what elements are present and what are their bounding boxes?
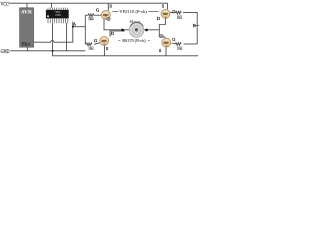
svg-text:B: B	[193, 23, 196, 28]
wire right leg to Q2 drain	[159, 18, 165, 29]
IC top pins	[48, 8, 68, 10]
wire gate splitter vertical	[84, 15, 86, 44]
svg-text:VP2110 (P-ch): VP2110 (P-ch)	[119, 9, 147, 14]
IC body	[46, 10, 69, 19]
wire VCC drop to AVR	[26, 3, 28, 8]
node A junction dot	[72, 26, 74, 28]
IC pin1 dot	[47, 15, 49, 17]
svg-text:A: A	[73, 21, 77, 26]
svg-text:G: G	[172, 37, 176, 42]
wire node A branch to gate splitter	[73, 26, 86, 28]
svg-text:240N: 240N	[55, 14, 61, 17]
svg-text:1kΩ: 1kΩ	[88, 17, 94, 21]
svg-text:G: G	[96, 8, 100, 13]
transistor Q3 BS170 bottom-left	[100, 36, 109, 45]
IC U1 DIP package	[46, 8, 69, 24]
node junction dot load left	[121, 29, 123, 31]
svg-text:BS170 (N-ch): BS170 (N-ch)	[122, 38, 146, 43]
wire top-left gate feed	[85, 14, 88, 16]
wire load left lead	[125, 29, 130, 31]
resistor R4 1k bottom-right	[175, 43, 181, 46]
svg-text:G: G	[94, 38, 98, 43]
wire load right lead	[144, 29, 160, 31]
svg-text:D: D	[160, 33, 163, 38]
svg-text:AVR: AVR	[21, 10, 32, 16]
wire Q1 drain down	[104, 19, 125, 30]
svg-text:S: S	[162, 3, 165, 8]
wire VCC drop to Q1 source	[107, 3, 109, 10]
wire VCC rail	[9, 2, 168, 4]
wire AVR GND drop	[26, 47, 28, 51]
wire IC pin to GND rail 2	[66, 23, 68, 51]
wire Q4 source to bus	[165, 47, 167, 56]
svg-text:D: D	[107, 17, 110, 22]
AVR microcontroller box	[20, 8, 34, 47]
svg-text:Motor: Motor	[130, 20, 141, 24]
wire R2 to Q3 gate	[94, 43, 100, 45]
wire PB1 from AVR to node A	[34, 22, 73, 43]
wire bottom-left gate feed	[84, 43, 87, 45]
wire ground bus	[53, 51, 199, 56]
node junction dot load right	[145, 29, 147, 31]
wire Q3 source to bus	[103, 45, 105, 56]
resistor R1 1k top-left	[88, 14, 94, 17]
transistor Q4 BS170 bottom-right	[162, 38, 171, 47]
svg-text:1kΩ: 1kΩ	[177, 46, 183, 50]
wire Q2 gate to R3	[170, 12, 176, 14]
node B tick	[196, 24, 200, 26]
transistor Q1 VP2110 top-left	[101, 11, 110, 20]
wire VCC drop to Q2 source	[167, 3, 169, 9]
wire right edge to R4	[184, 43, 198, 45]
resistor R3 1k top-right	[176, 11, 182, 14]
wire R1 to Q1 gate	[94, 14, 102, 16]
wire R3 to right edge and down	[183, 13, 197, 44]
svg-text:D: D	[111, 31, 114, 36]
wire VCC drop to IC top pin	[51, 3, 53, 8]
svg-text:VCC: VCC	[1, 2, 10, 8]
svg-text:D: D	[157, 16, 160, 21]
wire IC pin to GND rail	[52, 23, 54, 51]
wire R4 to Q4 gate	[172, 43, 176, 44]
wire right leg to Q4 drain	[159, 30, 165, 39]
svg-text:S: S	[110, 4, 113, 9]
svg-text:1kΩ: 1kΩ	[88, 47, 94, 51]
load M1 round component	[129, 22, 144, 37]
svg-text:PB1: PB1	[22, 41, 31, 46]
wire Q3 drain up	[110, 31, 125, 37]
transistor Q2 VP2110 top-right	[161, 9, 170, 18]
svg-text:S: S	[159, 48, 162, 53]
node junction dot on GND rail	[52, 50, 54, 52]
svg-text:GND: GND	[1, 49, 10, 55]
svg-text:1kΩ: 1kΩ	[177, 15, 183, 19]
resistor R2 1k bottom-left	[86, 43, 92, 46]
svg-text:S: S	[106, 46, 109, 51]
wire GND rail	[11, 50, 86, 52]
IC bottom pins	[48, 19, 68, 24]
